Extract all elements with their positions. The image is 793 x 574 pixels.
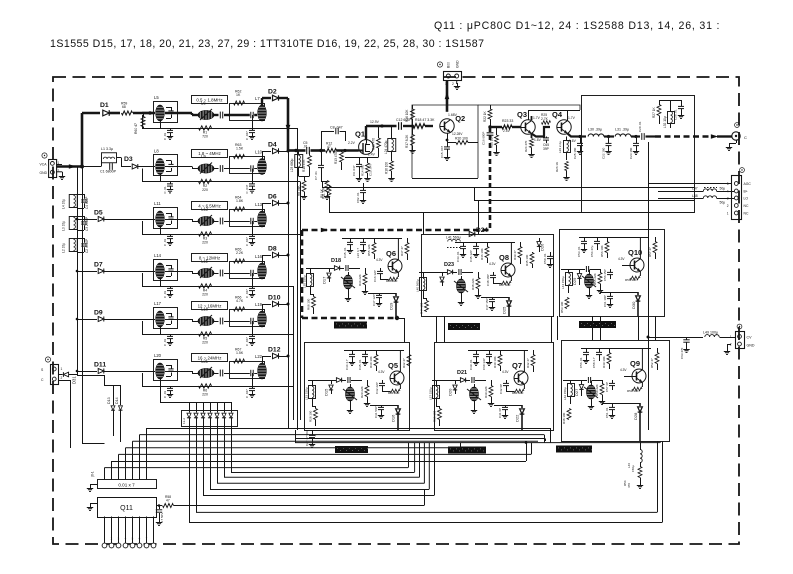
- capacitor C62: [686, 337, 688, 340]
- box output filter: [582, 96, 695, 213]
- emitter resistor: [399, 384, 401, 389]
- transistor Q5: [390, 371, 404, 385]
- svg-text:39P: 39P: [543, 147, 550, 151]
- svg-text:Q4: Q4: [552, 110, 563, 119]
- band label 4 ~ 6.5MHz: [192, 202, 228, 210]
- transformer L8: [154, 155, 178, 176]
- svg-text:C22 180: C22 180: [602, 147, 606, 159]
- svg-text:1.68V: 1.68V: [448, 113, 458, 117]
- svg-text:720: 720: [202, 135, 208, 139]
- svg-text:D17: D17: [322, 276, 327, 284]
- box around Q3 Q4 stage: [478, 105, 580, 110]
- wire J2 pin2 down: [59, 380, 71, 382]
- svg-text:R56 10K: R56 10K: [600, 245, 604, 257]
- capacitor to ground left: [170, 386, 172, 388]
- diode D9: [77, 319, 97, 321]
- svg-text:D30: D30: [631, 301, 636, 309]
- wire array top rail: [160, 402, 231, 404]
- svg-text:L16: L16: [255, 254, 263, 259]
- choke L3: [69, 217, 77, 230]
- ground left of Q11: [90, 503, 97, 505]
- svg-text:1.8V: 1.8V: [534, 138, 542, 142]
- diode D7: [77, 271, 97, 273]
- svg-text:2: 2: [727, 204, 729, 208]
- svg-text:1: 1: [730, 335, 732, 339]
- capacitor C2: [77, 238, 84, 240]
- svg-text:L1 3.3μ: L1 3.3μ: [101, 147, 113, 151]
- top parts: [581, 348, 651, 350]
- svg-text:Q7: Q7: [512, 361, 522, 370]
- coupling capacitor: [219, 112, 221, 119]
- svg-text:C37 12P: C37 12P: [372, 294, 376, 306]
- svg-text:L8: L8: [154, 149, 159, 154]
- diode D31: [59, 374, 63, 376]
- row lower rail: [142, 334, 252, 336]
- svg-text:4.3V: 4.3V: [620, 368, 627, 372]
- svg-text:C .047: C .047: [245, 289, 249, 298]
- svg-text:D12: D12: [268, 347, 281, 354]
- svg-text:L20: L20: [154, 353, 162, 358]
- svg-text:C .047: C .047: [245, 237, 249, 246]
- svg-text:C35 .01: C35 .01: [343, 247, 347, 258]
- row lower rail: [142, 386, 252, 388]
- svg-text:D4: D4: [268, 142, 277, 149]
- svg-text:C3 2700P: C3 2700P: [85, 217, 89, 231]
- black bar part number 5: [448, 447, 486, 454]
- ground of power connector: [456, 81, 458, 85]
- wire Q3 collector to Q4 base thick: [531, 116, 533, 120]
- connector J2: [51, 365, 59, 385]
- inductor L1 3.3u with C1: [82, 166, 101, 168]
- svg-text:C2 4700P: C2 4700P: [85, 239, 89, 253]
- resistor R6 220: [199, 384, 212, 388]
- svg-text:2.5V: 2.5V: [503, 129, 511, 133]
- svg-text:R49 10K: R49 10K: [602, 356, 606, 368]
- svg-text:1S1555 D15, 17, 18, 20, 21,: 1S1555 D15, 17, 18, 20, 21, 23, 27, 29 :…: [50, 38, 484, 50]
- emitter resistor: [397, 272, 399, 277]
- resistor R1 720: [199, 126, 212, 130]
- svg-text:4 ~ 6.5MHz: 4 ~ 6.5MHz: [198, 204, 221, 209]
- array diode: [203, 402, 205, 413]
- svg-text:C34 4.7: C34 4.7: [345, 359, 349, 370]
- transistor Q8: [501, 263, 515, 277]
- svg-text:D13: D13: [107, 397, 111, 404]
- svg-text:1.5K: 1.5K: [236, 351, 244, 355]
- svg-text:220: 220: [202, 393, 208, 397]
- svg-text:2: 2: [452, 82, 454, 86]
- antenna connector J1 VCA/GND: [49, 160, 57, 178]
- diode D5: [77, 219, 97, 221]
- svg-text:R56 10K: R56 10K: [625, 278, 637, 282]
- wire Q1 drain to C12: [365, 126, 367, 140]
- svg-text:L14: L14: [154, 253, 162, 258]
- svg-text:C .01: C .01: [163, 390, 167, 398]
- wire dashed AGC path: [302, 229, 492, 232]
- coupling cap: [345, 265, 347, 271]
- band label 8 ~ 12MHz: [192, 254, 228, 262]
- transistor Q6: [388, 259, 402, 273]
- svg-text:D8: D8: [268, 246, 277, 253]
- svg-text:L17: L17: [154, 301, 162, 306]
- svg-text:L35 150μ: L35 150μ: [303, 275, 307, 288]
- svg-text:D18: D18: [331, 258, 341, 264]
- coil L7: [258, 105, 267, 121]
- svg-text:L10: L10: [255, 150, 263, 155]
- svg-text:C47 15P: C47 15P: [485, 298, 489, 310]
- svg-text:R46 10K: R46 10K: [480, 248, 484, 260]
- svg-text:1.8K: 1.8K: [236, 199, 244, 203]
- svg-text:R34 22K: R34 22K: [358, 274, 362, 286]
- coil L10: [258, 159, 267, 175]
- array diode: [224, 402, 226, 413]
- coupling cap: [458, 269, 460, 275]
- wire to CV connector: [648, 337, 680, 339]
- array diode: [231, 402, 233, 413]
- coil L16: [258, 263, 267, 279]
- svg-text:(8-1: (8-1: [91, 471, 95, 477]
- svg-text:L2 10μ: L2 10μ: [62, 243, 66, 253]
- svg-text:4.7 50V: 4.7 50V: [160, 513, 164, 523]
- svg-text:L31 .39μ: L31 .39μ: [615, 128, 629, 132]
- svg-text:L48: L48: [692, 194, 698, 198]
- svg-text:L36 4.7: L36 4.7: [356, 248, 360, 258]
- wire AGC to pin5: [648, 183, 732, 185]
- svg-text:C .01: C .01: [163, 290, 167, 298]
- coil L22: [258, 363, 267, 379]
- svg-text:C23 180: C23 180: [629, 147, 633, 159]
- svg-text:D25: D25: [502, 306, 507, 314]
- svg-text:NC: NC: [744, 204, 749, 208]
- coupling capacitor: [219, 318, 221, 325]
- svg-text:1.7V: 1.7V: [568, 116, 576, 120]
- svg-text:C48 18P: C48 18P: [486, 274, 490, 286]
- svg-text:C51 .01: C51 .01: [605, 407, 609, 418]
- svg-text:C .047: C .047: [245, 389, 249, 398]
- coupling capacitor: [219, 270, 221, 277]
- svg-text:C15 .047: C15 .047: [440, 145, 444, 158]
- ground left of cap array: [90, 484, 97, 486]
- transformer L11: [154, 208, 178, 229]
- array diode: [196, 402, 198, 413]
- svg-text:R18 47 3.3K: R18 47 3.3K: [415, 118, 435, 122]
- svg-text:C39 .01: C39 .01: [469, 359, 473, 370]
- choke L4: [69, 195, 77, 208]
- svg-text:C82 .01: C82 .01: [356, 192, 360, 203]
- top rail components: [468, 350, 528, 352]
- svg-text:C1 6800P: C1 6800P: [100, 170, 117, 174]
- svg-text:C61 10P: C61 10P: [603, 295, 607, 307]
- svg-text:2: 2: [61, 376, 63, 380]
- svg-text:C63 470: C63 470: [680, 347, 684, 359]
- svg-text:Q6: Q6: [386, 249, 396, 258]
- wire feeder x648: [648, 142, 650, 430]
- svg-text:C .01: C .01: [163, 132, 167, 140]
- svg-text:L22: L22: [255, 354, 263, 359]
- row lower rail: [142, 181, 252, 183]
- svg-text:R37 47: R37 47: [400, 246, 404, 256]
- resistor R3 220: [199, 232, 212, 236]
- svg-text:12.9V: 12.9V: [370, 120, 380, 124]
- svg-text:C20 .01: C20 .01: [638, 121, 642, 132]
- capacitor C .047 4.7 50V at Q11: [159, 506, 161, 510]
- svg-text:R42 47: R42 47: [526, 358, 530, 368]
- bus staircase wires upper set: [147, 428, 551, 430]
- svg-text:220: 220: [202, 188, 208, 192]
- svg-text:R17 8.2K: R17 8.2K: [405, 134, 409, 148]
- wire Q4 emitter to output line: [568, 134, 579, 137]
- svg-text:L40 560μ: L40 560μ: [416, 279, 420, 292]
- svg-text:R48 100: R48 100: [562, 412, 566, 424]
- box around Q2 stage: [412, 105, 478, 178]
- svg-text:2.4V: 2.4V: [368, 153, 376, 157]
- coupling capacitor: [219, 165, 221, 172]
- RF block 2 Q8 box: [422, 235, 554, 317]
- svg-text:R13 470K: R13 470K: [334, 149, 338, 164]
- svg-text:D5: D5: [94, 210, 103, 217]
- svg-text:68: 68: [122, 105, 126, 109]
- svg-text:C .047: C .047: [245, 337, 249, 346]
- svg-text:Q1: Q1: [355, 130, 365, 139]
- svg-text:R48 22K: R48 22K: [471, 278, 475, 290]
- emitter resistor: [523, 384, 525, 389]
- svg-text:C56 15P: C56 15P: [603, 269, 607, 281]
- wire antenna to junction: [56, 164, 62, 166]
- svg-text:2.2V: 2.2V: [348, 141, 356, 145]
- svg-text:L7: L7: [255, 96, 260, 101]
- wire to Q3 base: [488, 125, 491, 128]
- main output line: [578, 135, 586, 137]
- svg-text:C16 600P: C16 600P: [482, 132, 486, 145]
- svg-text:1.5K: 1.5K: [236, 147, 244, 151]
- svg-text:D2: D2: [268, 89, 277, 96]
- svg-text:L30 .39μ: L30 .39μ: [588, 128, 602, 132]
- svg-text:D10: D10: [268, 295, 281, 302]
- wire row rails to mid bus: [252, 128, 297, 130]
- svg-text:C7 .01: C7 .01: [314, 171, 318, 180]
- top parts: [579, 237, 649, 239]
- array diode: [217, 402, 219, 413]
- svg-text:12 ~ 16MHz: 12 ~ 16MHz: [198, 304, 222, 309]
- transformer L5: [154, 102, 178, 123]
- svg-text:GND: GND: [40, 171, 48, 175]
- bus lines right mid: [322, 187, 694, 189]
- svg-text:AGC: AGC: [744, 182, 752, 186]
- svg-text:4.3V: 4.3V: [489, 262, 496, 266]
- svg-text:47: 47: [327, 145, 331, 149]
- transformer L17: [154, 308, 178, 329]
- wire Q11 columns: [104, 468, 106, 480]
- capacitor to ground left: [170, 286, 172, 288]
- ground at CV connector: [727, 344, 731, 346]
- transistor Q7: [514, 371, 528, 385]
- capacitor to ground right: [252, 373, 254, 386]
- ground at output connector: [736, 140, 738, 143]
- svg-text:C43 .01: C43 .01: [456, 251, 460, 262]
- IC Q11 box: [98, 498, 157, 518]
- RF block 5 Q7 box: [435, 343, 554, 431]
- svg-text:C54 47μ: C54 47μ: [590, 245, 594, 257]
- svg-text:4.3V: 4.3V: [618, 257, 625, 261]
- svg-text:50μ: 50μ: [720, 187, 726, 191]
- svg-text:-: -: [153, 537, 154, 541]
- svg-text:GND: GND: [747, 344, 755, 348]
- risers upper set: [550, 428, 552, 443]
- capacitor C7: [321, 151, 323, 166]
- svg-text:C56 .01: C56 .01: [579, 357, 583, 368]
- wire ladder vertical: [77, 167, 79, 256]
- svg-text:R15 470: R15 470: [372, 138, 376, 150]
- svg-text:L19: L19: [255, 302, 263, 307]
- svg-text:Q11: Q11: [120, 505, 133, 512]
- svg-text:R44 100: R44 100: [420, 302, 424, 314]
- svg-text:R20 100: R20 100: [455, 137, 468, 141]
- resistor R5 220: [199, 332, 212, 336]
- svg-text:L41 560μ: L41 560μ: [446, 236, 461, 240]
- svg-text:C .01: C .01: [163, 238, 167, 246]
- svg-text:220: 220: [202, 241, 208, 245]
- wire dashed to output connector: [655, 135, 712, 137]
- transistor Q10: [630, 258, 644, 272]
- resistor R2 220: [199, 179, 212, 183]
- coupling cap: [471, 377, 473, 383]
- top rail components: [455, 242, 515, 244]
- wire ladder to D31 node: [77, 255, 79, 375]
- output connector C: [732, 132, 740, 140]
- svg-text:LO: LO: [744, 197, 749, 201]
- svg-text:D27: D27: [574, 388, 579, 396]
- caps to ground under output line: [580, 137, 582, 144]
- coil L13: [258, 211, 267, 227]
- emitter net: [641, 382, 643, 387]
- capacitor C20 .01 output: [641, 133, 643, 140]
- svg-text:470: 470: [627, 483, 631, 488]
- svg-text:VCA: VCA: [40, 163, 48, 167]
- svg-text:R52 47: R52 47: [650, 358, 654, 368]
- svg-text:C25 180: C25 180: [573, 147, 577, 159]
- capacitor to ground right: [252, 169, 254, 182]
- wire x82 vertical: [82, 167, 84, 376]
- svg-text:R30 10K: R30 10K: [369, 356, 373, 368]
- capacitor to ground right: [252, 321, 254, 334]
- transistor Q1 FET: [359, 140, 374, 155]
- svg-text:R39 22K: R39 22K: [484, 386, 488, 398]
- svg-text:D29: D29: [572, 277, 577, 285]
- svg-text:C45 12P: C45 12P: [469, 250, 473, 262]
- svg-text:C58 4.7: C58 4.7: [592, 357, 596, 368]
- wire bus tail down: [288, 356, 290, 428]
- svg-text:B+: B+: [744, 190, 748, 194]
- svg-text:Q5: Q5: [388, 361, 398, 370]
- svg-text:C: C: [744, 135, 747, 140]
- svg-text:D15: D15: [324, 388, 329, 396]
- top rail components: [344, 350, 404, 352]
- svg-text:L49 100μ: L49 100μ: [703, 331, 718, 335]
- transistor Q3: [521, 120, 535, 134]
- svg-text:C57 6P: C57 6P: [605, 382, 609, 392]
- R58 wire riser: [257, 505, 424, 507]
- ground at antenna connector: [56, 171, 62, 173]
- capacitor to ground left: [170, 182, 172, 184]
- capacitor to ground left: [170, 128, 172, 130]
- svg-text:R55 22K: R55 22K: [593, 273, 597, 285]
- svg-text:Q8: Q8: [499, 253, 509, 262]
- svg-text:D16: D16: [391, 414, 396, 422]
- coupling cap: [347, 377, 349, 383]
- svg-text:C .01: C .01: [163, 338, 167, 346]
- svg-text:R27 1K: R27 1K: [652, 106, 656, 118]
- svg-text:4.3V: 4.3V: [502, 370, 509, 374]
- capacitor to ground right: [252, 221, 254, 234]
- svg-text:C16 12P: C16 12P: [373, 270, 377, 282]
- capacitor to ground left: [170, 334, 172, 336]
- svg-text:R45 100: R45 100: [525, 254, 529, 266]
- svg-text:R8 56K: R8 56K: [297, 184, 301, 196]
- svg-text:D31: D31: [72, 376, 77, 384]
- tuned coil: [456, 279, 465, 293]
- svg-text:L11: L11: [154, 201, 161, 206]
- wire thick dashed from Q3 node down: [489, 127, 492, 230]
- transistor Q4: [557, 120, 571, 134]
- wire Q4 collector up: [567, 110, 569, 121]
- svg-text:D28: D28: [633, 412, 638, 420]
- svg-text:C .047: C .047: [245, 184, 249, 193]
- black bar part number 4: [335, 446, 368, 453]
- svg-text:D7: D7: [94, 262, 103, 269]
- resistor R4 220: [199, 284, 212, 288]
- capacitor to ground left: [170, 234, 172, 236]
- diode array D-13 box: [182, 411, 238, 427]
- svg-text:D22: D22: [515, 414, 520, 422]
- svg-text:D3: D3: [124, 156, 133, 163]
- svg-text:1K: 1K: [236, 93, 241, 97]
- long rails under blocks: [295, 438, 545, 440]
- wire band select bus: [287, 98, 290, 151]
- svg-text:C .047: C .047: [245, 131, 249, 140]
- svg-text:D21: D21: [457, 370, 467, 376]
- tuned coil: [343, 275, 352, 289]
- svg-text:D1: D1: [100, 102, 109, 109]
- svg-text:0.01 x 7: 0.01 x 7: [118, 483, 135, 488]
- svg-text:R29 22K: R29 22K: [360, 386, 364, 398]
- svg-text:1: 1: [61, 367, 63, 371]
- diode: [442, 272, 444, 276]
- svg-text:L3 10μ: L3 10μ: [62, 221, 66, 231]
- svg-text:D19: D19: [389, 302, 394, 310]
- svg-text:12.28V: 12.28V: [452, 132, 463, 136]
- svg-text:R60 47: R60 47: [134, 123, 138, 134]
- svg-text:C .01: C .01: [163, 186, 167, 194]
- wire Q2 collector to power: [446, 80, 449, 112]
- risers lower set: [414, 443, 416, 472]
- svg-text:R50 22K: R50 22K: [595, 384, 599, 396]
- svg-text:R51 10K: R51 10K: [627, 389, 639, 393]
- svg-text:L13: L13: [255, 202, 263, 207]
- svg-text:C32 22P: C32 22P: [375, 382, 379, 394]
- svg-text:L33 150μ: L33 150μ: [305, 387, 309, 400]
- svg-text:Q9: Q9: [630, 359, 640, 368]
- row lower rail: [142, 234, 252, 236]
- svg-text:1.7V: 1.7V: [533, 116, 541, 120]
- diode D11: [77, 371, 97, 373]
- wire D19 junction to block4: [397, 318, 404, 320]
- svg-text:NC: NC: [744, 212, 749, 216]
- svg-text:L4 10μ: L4 10μ: [62, 199, 66, 209]
- svg-text:0.5 ~ 1.8MHz: 0.5 ~ 1.8MHz: [196, 98, 222, 103]
- svg-text:C60 33P: C60 33P: [482, 358, 486, 370]
- svg-text:R53 100: R53 100: [560, 301, 564, 313]
- Q2 emitter network R20 100 C15: [447, 133, 449, 140]
- svg-text:R14 680: R14 680: [361, 164, 365, 176]
